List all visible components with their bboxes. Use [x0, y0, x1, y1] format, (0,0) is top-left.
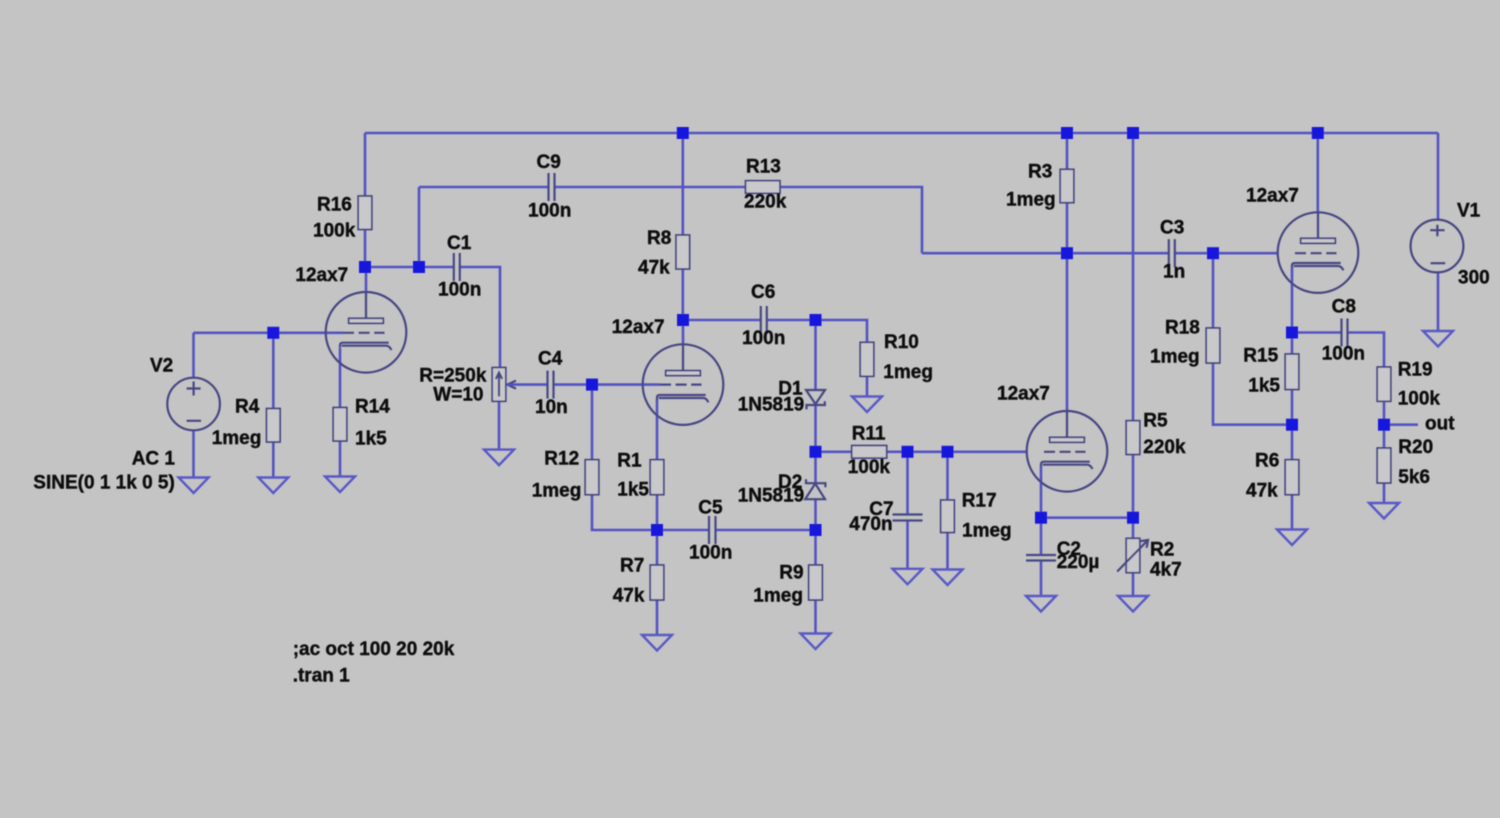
- svg-text:5k6: 5k6: [1398, 467, 1430, 488]
- resistor R10: [860, 342, 874, 376]
- svg-text:R9: R9: [779, 563, 803, 584]
- svg-text:100n: 100n: [1322, 344, 1365, 365]
- voltage source V1: [1411, 220, 1464, 273]
- wire R3 top lead: [1066, 133, 1069, 169]
- wire tube3 plate lead: [1066, 253, 1069, 412]
- svg-text:220µ: 220µ: [1057, 552, 1100, 573]
- wire V1 top lead: [1437, 133, 1440, 220]
- svg-text:47k: 47k: [638, 258, 670, 279]
- ground R4: [258, 478, 288, 494]
- svg-text:12ax7: 12ax7: [612, 317, 665, 338]
- node junction R3 bottom row: [1061, 247, 1073, 259]
- wire R5 bottom lead: [1132, 455, 1135, 518]
- wire R9 top lead: [814, 530, 817, 565]
- svg-text:100n: 100n: [438, 280, 481, 301]
- svg-text:R6: R6: [1255, 451, 1279, 472]
- svg-text:V1: V1: [1457, 201, 1481, 222]
- svg-text:10n: 10n: [535, 397, 568, 418]
- wire tube4 plate feed: [1317, 133, 1320, 213]
- svg-text:1N5819: 1N5819: [738, 486, 805, 507]
- resistor R13: [746, 181, 781, 194]
- svg-text:R2: R2: [1150, 540, 1174, 561]
- svg-text:R5: R5: [1143, 411, 1168, 432]
- node junction R16 bottom: [359, 261, 371, 273]
- node junction tube4 cathode: [1286, 327, 1298, 339]
- svg-text:R11: R11: [852, 424, 886, 445]
- svg-text:R14: R14: [355, 397, 390, 418]
- svg-text:100n: 100n: [689, 543, 732, 564]
- ground R14: [325, 477, 355, 493]
- wire R2 ground lead: [1132, 573, 1135, 596]
- ground potentiometer: [484, 450, 514, 466]
- svg-text:.tran 1: .tran 1: [293, 666, 350, 687]
- capacitor C8: [1342, 319, 1348, 347]
- resistor R15: [1285, 354, 1299, 390]
- capacitor C7: [893, 515, 923, 521]
- wire C1 right to pot top: [460, 267, 500, 368]
- svg-text:100n: 100n: [528, 201, 571, 222]
- wire V2 ground lead: [192, 430, 195, 477]
- resistor R8: [676, 235, 690, 269]
- node junction bus R5: [1127, 127, 1139, 139]
- wire tube2 plate row to C6: [683, 319, 761, 322]
- ground C7: [893, 569, 923, 585]
- node junction C6 right: [810, 314, 822, 326]
- svg-text:1k5: 1k5: [617, 480, 649, 501]
- wire R15 bottom lead: [1291, 390, 1294, 425]
- svg-text:220k: 220k: [1143, 437, 1186, 458]
- svg-text:R16: R16: [317, 195, 352, 216]
- resistor R9: [809, 565, 823, 600]
- wire R11 right to tube3 grid: [887, 450, 1027, 453]
- wire R7 top lead: [656, 530, 659, 565]
- wire V1 ground lead: [1437, 273, 1440, 332]
- ground R9: [801, 634, 831, 650]
- wire V2 top lead: [192, 333, 195, 378]
- svg-text:1n: 1n: [1163, 262, 1185, 283]
- svg-text:C9: C9: [537, 152, 561, 173]
- svg-text:220k: 220k: [744, 192, 787, 213]
- wire C6 right to R10: [767, 320, 867, 342]
- resistor R6: [1285, 460, 1299, 495]
- resistor R18: [1206, 328, 1220, 363]
- node junction out: [1378, 419, 1390, 431]
- svg-text:R13: R13: [746, 157, 781, 178]
- wire pot bottom lead: [498, 401, 501, 449]
- wire C9 to R13: [555, 186, 746, 189]
- wire D2 top lead: [814, 452, 817, 483]
- triode U3 12ax7: [1027, 411, 1108, 492]
- resistor R1: [650, 460, 664, 495]
- node junction bus tube4: [1312, 127, 1324, 139]
- wire tube4 cathode row to C8: [1292, 331, 1342, 334]
- node junction C4 right: [586, 379, 598, 391]
- wire D1 top lead: [814, 320, 817, 390]
- wire input row to tube1 grid: [194, 331, 344, 334]
- svg-text:100n: 100n: [742, 328, 785, 349]
- ground R20: [1369, 503, 1399, 519]
- resistor R5: [1126, 421, 1140, 455]
- svg-text:C4: C4: [538, 349, 563, 370]
- svg-text:C3: C3: [1160, 218, 1184, 239]
- svg-text:1meg: 1meg: [753, 586, 803, 607]
- svg-text:R18: R18: [1165, 318, 1200, 339]
- resistor R17: [941, 500, 955, 533]
- svg-text:C1: C1: [447, 233, 472, 254]
- wire R6 ground lead: [1291, 495, 1294, 530]
- wire R4 top lead: [272, 333, 275, 409]
- svg-text:1meg: 1meg: [532, 481, 582, 502]
- wire C7 ground lead: [906, 521, 909, 569]
- svg-text:1N5819: 1N5819: [738, 395, 805, 416]
- wire R10 ground lead: [866, 376, 869, 396]
- wire C3 right to tube4 grid: [1175, 252, 1279, 255]
- resistor R3: [1060, 169, 1074, 202]
- wire R17 ground lead: [946, 533, 949, 570]
- resistor R14: [333, 408, 347, 442]
- wire tube2 plate riser: [682, 320, 685, 346]
- wire C2 ground lead: [1040, 561, 1043, 597]
- node junction C7 top: [902, 446, 914, 458]
- wire node row C1 left: [365, 266, 454, 269]
- svg-text:R4: R4: [235, 397, 260, 418]
- wire tube4 cathode lead: [1291, 268, 1294, 333]
- resistor R4: [267, 409, 281, 443]
- node junction D1 D2: [810, 446, 822, 458]
- node junction tube1 grid: [267, 327, 279, 339]
- svg-text:R3: R3: [1028, 162, 1052, 183]
- wire R13 right to row 253: [780, 187, 922, 253]
- node junction C5 right: [810, 524, 822, 536]
- svg-text:100k: 100k: [848, 457, 891, 478]
- svg-text:1meg: 1meg: [883, 362, 933, 383]
- wire R16 top lead: [364, 133, 367, 196]
- wire D2 bottom lead: [814, 499, 817, 530]
- wire C2 top lead: [1040, 518, 1043, 555]
- svg-text:R=250k: R=250k: [419, 366, 487, 387]
- svg-text:R12: R12: [544, 449, 579, 470]
- wire R6 top lead: [1291, 425, 1294, 460]
- svg-text:1meg: 1meg: [1006, 190, 1056, 211]
- wire R1 bottom lead: [656, 495, 659, 530]
- wire R18 bottom to R15 junction: [1213, 363, 1292, 425]
- diode D1: [806, 390, 825, 409]
- wire R11 left lead: [816, 450, 852, 453]
- diode D2: [805, 479, 825, 499]
- wire R8 bottom lead: [681, 269, 684, 320]
- node junction R18 top: [1207, 247, 1219, 259]
- node junction R17 top: [942, 446, 954, 458]
- ground R7: [642, 635, 672, 651]
- svg-text:300: 300: [1458, 268, 1490, 289]
- wire D1 bottom lead: [814, 405, 817, 452]
- ground R10: [852, 397, 882, 413]
- wire R20 ground lead: [1383, 483, 1386, 503]
- svg-text:100k: 100k: [313, 221, 356, 242]
- wire R12 bottom to C5 row: [592, 495, 709, 530]
- svg-text:R17: R17: [962, 491, 997, 512]
- wire R19 bottom lead: [1383, 401, 1386, 424]
- wire R2 top lead: [1132, 518, 1135, 539]
- wire R16 bottom lead: [364, 230, 367, 268]
- svg-text:;ac oct 100 20 20k: ;ac oct 100 20 20k: [293, 639, 455, 660]
- svg-text:12ax7: 12ax7: [295, 265, 348, 286]
- capacitor C4: [548, 371, 554, 399]
- wire node out stub: [1384, 423, 1418, 426]
- ground R6: [1277, 530, 1307, 546]
- wire R20 top lead: [1383, 425, 1386, 448]
- wire tube3 cathode lead: [1040, 467, 1043, 518]
- svg-text:47k: 47k: [1246, 481, 1278, 502]
- svg-text:AC 1: AC 1: [132, 449, 176, 470]
- voltage source V2: [167, 378, 220, 431]
- svg-text:W=10: W=10: [433, 385, 483, 406]
- resistor R12: [585, 460, 599, 495]
- wire R5 top lead: [1132, 133, 1135, 421]
- svg-text:out: out: [1425, 414, 1455, 435]
- svg-text:1k5: 1k5: [355, 429, 387, 450]
- svg-text:R1: R1: [617, 451, 642, 472]
- svg-text:R7: R7: [620, 556, 644, 577]
- node junction C1 left: [413, 261, 425, 273]
- wire R14 ground lead: [339, 441, 342, 477]
- triode U4 12ax7: [1278, 212, 1359, 293]
- capacitor C1: [454, 253, 460, 281]
- svg-text:C5: C5: [698, 498, 723, 519]
- capacitor C2: [1026, 555, 1056, 561]
- triode U2 12ax7: [643, 344, 724, 425]
- ground C2: [1026, 596, 1056, 612]
- resistor R16: [358, 196, 372, 230]
- resistor R19: [1377, 367, 1391, 401]
- capacitor C5: [709, 516, 716, 544]
- wire tube1 cathode lead: [339, 348, 342, 407]
- node junction tube3 cathode: [1035, 512, 1047, 524]
- resistor R20: [1377, 448, 1391, 483]
- capacitor C9: [549, 173, 555, 201]
- svg-text:V2: V2: [150, 356, 173, 377]
- wire R3 bottom lead: [1066, 203, 1069, 254]
- potentiometer R 250k: [492, 368, 516, 402]
- svg-text:100k: 100k: [1398, 389, 1441, 410]
- wire C7 top lead: [906, 452, 909, 515]
- svg-text:C6: C6: [751, 282, 775, 303]
- wire C4 right to tube2 grid: [554, 383, 661, 386]
- capacitor C3: [1169, 239, 1175, 267]
- svg-text:470n: 470n: [849, 514, 892, 535]
- rheostat R2: [1117, 538, 1148, 572]
- svg-text:47k: 47k: [613, 586, 645, 607]
- wire top supply bus: [365, 132, 1438, 135]
- wire R7 ground lead: [656, 600, 659, 635]
- ground R17: [933, 570, 963, 586]
- svg-text:SINE(0 1 1k 0 5): SINE(0 1 1k 0 5): [33, 473, 175, 494]
- node junction bus R3: [1061, 127, 1073, 139]
- svg-text:1k5: 1k5: [1248, 376, 1280, 397]
- wire R18 top lead: [1212, 253, 1215, 328]
- resistor R11: [852, 446, 887, 459]
- wire R4 ground lead: [272, 442, 275, 478]
- ground V1: [1423, 331, 1453, 347]
- capacitor C6: [761, 306, 767, 334]
- wire R17 top lead: [946, 452, 949, 500]
- node junction tube2 plate: [677, 314, 689, 326]
- svg-text:1meg: 1meg: [962, 521, 1012, 542]
- wire C9 feedback riser: [418, 187, 421, 267]
- wire row 253 to C3: [922, 252, 1169, 255]
- svg-text:1meg: 1meg: [1150, 347, 1200, 368]
- svg-text:R19: R19: [1398, 360, 1433, 381]
- svg-text:12ax7: 12ax7: [1246, 186, 1299, 207]
- wire tube1 plate riser: [365, 267, 368, 293]
- node junction R15 bottom: [1286, 419, 1298, 431]
- svg-text:R20: R20: [1398, 437, 1433, 458]
- svg-text:R15: R15: [1243, 346, 1278, 367]
- svg-text:12ax7: 12ax7: [997, 384, 1050, 405]
- wire R15 top lead: [1291, 333, 1294, 355]
- wire pot wiper to C4: [511, 383, 548, 386]
- ground V2: [179, 478, 209, 494]
- wire C8 right to R19: [1348, 333, 1385, 368]
- svg-text:R8: R8: [647, 228, 671, 249]
- svg-text:R10: R10: [884, 332, 919, 353]
- wire R12 top lead: [591, 385, 594, 460]
- wire C5 right to D2 column: [716, 529, 816, 532]
- wire R8 top lead: [681, 133, 684, 235]
- resistor R7: [650, 565, 664, 600]
- wire cathode row tube3: [1041, 516, 1133, 519]
- node junction R5 bottom: [1127, 512, 1139, 524]
- ground R2: [1118, 596, 1148, 612]
- svg-text:1meg: 1meg: [212, 428, 262, 449]
- node junction bus R8: [677, 127, 689, 139]
- wire R9 ground lead: [814, 600, 817, 634]
- wire C9 left lead: [419, 186, 549, 189]
- triode U1 12ax7: [326, 292, 407, 373]
- svg-text:4k7: 4k7: [1150, 560, 1182, 581]
- node junction C5 left: [651, 524, 663, 536]
- wire tube2 cathode lead: [656, 400, 659, 460]
- svg-text:C8: C8: [1332, 297, 1356, 318]
